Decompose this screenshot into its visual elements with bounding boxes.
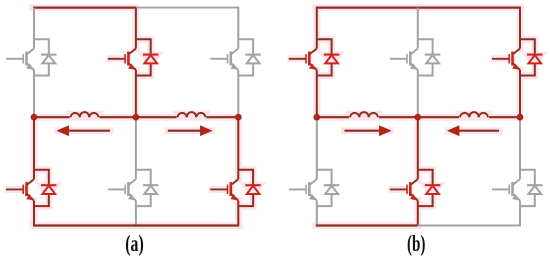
wire: (b) leg2 top emitter lead: [417, 70, 419, 117]
transistor Q8 (IGBT): [390, 49, 418, 71]
wire: (b) leg1 bottom emitter lead: [316, 201, 318, 226]
wire: (b) leg2 bottom emitter lead: [417, 201, 419, 226]
current arrow (b) left, pointing right: [345, 130, 380, 132]
wire: (a) leg2 top diode branch (top): [136, 39, 151, 54]
diode D5 (anti-parallel): [143, 185, 159, 194]
inductor L2 (a): [178, 112, 206, 117]
wire: (b) leg1 top collector lead: [316, 8, 318, 49]
wire: (b) leg1 bottom diode branch (top): [317, 170, 332, 185]
wire: (a) leg1 top emitter lead: [33, 70, 35, 117]
wire: (a) leg1 bottom collector lead: [33, 117, 35, 179]
wire: (a) leg3 bottom diode branch (top): [238, 170, 253, 185]
wire: (a) leg2 bottom collector lead: [135, 117, 137, 179]
transistor Q3 (IGBT): [210, 49, 238, 71]
node B2 (junction dot): [415, 114, 421, 120]
wire: (b) leg3 top emitter lead: [519, 70, 521, 117]
wire: (b) leg1 top diode branch (top): [317, 39, 332, 54]
diode D10 (anti-parallel): [324, 185, 340, 194]
inductor L4 (b): [460, 112, 488, 117]
node A2 (junction dot): [133, 114, 139, 120]
wire: (b) leg3 top collector lead: [519, 8, 521, 49]
wire: (a) leg3 top collector lead: [237, 8, 239, 49]
svg-text:(a): (a): [125, 231, 144, 257]
wire: (b) top rail (highlighted): [316, 6, 521, 8]
transistor Q5 (IGBT): [108, 179, 136, 201]
diode D3 (anti-parallel): [245, 55, 260, 64]
diode D8 (anti-parallel): [425, 55, 441, 64]
wire: (a) bottom rail (highlighted): [33, 224, 239, 226]
wire: (b) leg2 top diode branch (top): [418, 39, 433, 54]
diode D9 (anti-parallel): [527, 55, 543, 64]
wire: (a) leg3 top emitter lead: [237, 70, 239, 117]
wire: (a) leg1 bottom diode branch (bottom): [34, 194, 49, 206]
wire: (a) leg2 top collector lead: [135, 8, 137, 49]
wire: (b) leg2 bottom diode branch (top): [418, 170, 433, 185]
wire: (a) top rail left segment (highlighted): [33, 6, 136, 8]
transistor Q12 (IGBT): [492, 179, 520, 201]
wire: (b) leg2 top collector lead: [417, 8, 419, 49]
wire: (a) leg2 top diode branch (bottom): [136, 64, 151, 76]
wire: (a) middle rail segments: [34, 116, 238, 118]
wire: (a) leg1 top diode branch (top): [34, 39, 49, 54]
wire: (b) leg1 top emitter lead: [316, 70, 318, 117]
wire: (b) middle rail segments: [317, 116, 520, 118]
wire: (a) leg3 bottom emitter lead: [237, 201, 239, 226]
wire: (b) leg3 bottom diode branch (top): [520, 170, 535, 185]
diode D2 (anti-parallel): [143, 55, 159, 64]
node A3 (junction dot): [235, 114, 241, 120]
inductor L1 (a): [71, 112, 99, 117]
wire: (a) leg3 top diode branch (top): [238, 39, 253, 54]
transistor Q2 (IGBT): [108, 49, 136, 71]
current arrow (a) right, pointing right: [168, 130, 201, 132]
wire: (a) leg3 top diode branch (bottom): [238, 64, 253, 76]
wire: (b) leg1 top diode branch (bottom): [317, 64, 332, 76]
wire: (b) leg2 top diode branch (bottom): [418, 64, 433, 76]
wire: (a) leg2 bottom diode branch (top): [136, 170, 151, 185]
wire: (b) leg1 bottom collector lead: [316, 117, 318, 179]
wire: (a) leg1 bottom emitter lead: [33, 201, 35, 226]
node B1 (junction dot): [314, 114, 320, 120]
wire: (b) leg3 top diode branch (bottom): [520, 64, 535, 76]
current arrow (b) right, pointing left: [459, 130, 499, 132]
transistor Q10 (IGBT): [289, 179, 317, 201]
transistor Q9 (IGBT): [492, 49, 520, 71]
wire: (a) leg1 bottom diode branch (top): [34, 170, 49, 185]
wire: (b) leg3 bottom diode branch (bottom): [520, 194, 535, 206]
node A1 (junction dot): [31, 114, 37, 120]
transistor Q4 (IGBT): [6, 179, 34, 201]
diode D4 (anti-parallel): [41, 185, 57, 194]
wire: (a) leg2 bottom emitter lead: [135, 201, 137, 226]
wire: (b) leg2 bottom diode branch (bottom): [418, 194, 433, 206]
diode D11 (anti-parallel): [425, 185, 441, 194]
wire: (a) leg3 bottom diode branch (bottom): [238, 194, 253, 206]
wire: (b) leg1 bottom diode branch (bottom): [317, 194, 332, 206]
inductor L3 (b): [350, 112, 378, 117]
wire: (a) top rail right segment: [136, 7, 239, 9]
wire: (a) leg1 top diode branch (bottom): [34, 64, 49, 76]
wire: (b) bottom rail left segment (highlighted): [316, 224, 418, 226]
node B3 (junction dot): [517, 114, 523, 120]
wire: (b) bottom rail right segment: [418, 225, 521, 227]
wire: (a) leg3 bottom collector lead: [237, 117, 239, 179]
diode D12 (anti-parallel): [527, 185, 543, 194]
transistor Q6 (IGBT): [210, 179, 238, 201]
wire: (a) leg2 top emitter lead: [135, 70, 137, 117]
transistor Q1 (IGBT): [6, 49, 34, 71]
current arrow (a) left, pointing left: [69, 130, 111, 132]
svg-text:(b): (b): [407, 231, 426, 257]
wire: (b) leg3 bottom collector lead: [519, 117, 521, 179]
diode D7 (anti-parallel): [324, 55, 340, 64]
diode D6 (anti-parallel): [245, 185, 260, 194]
wire: (b) leg3 bottom emitter lead: [519, 201, 521, 226]
wire: (a) leg2 bottom diode branch (bottom): [136, 194, 151, 206]
transistor Q11 (IGBT): [390, 179, 418, 201]
wire: (a) leg1 top collector lead: [33, 8, 35, 49]
transistor Q7 (IGBT): [289, 49, 317, 71]
diode D1 (anti-parallel): [41, 55, 57, 64]
wire: (b) leg2 bottom collector lead: [417, 117, 419, 179]
wire: (b) leg3 top diode branch (top): [520, 39, 535, 54]
